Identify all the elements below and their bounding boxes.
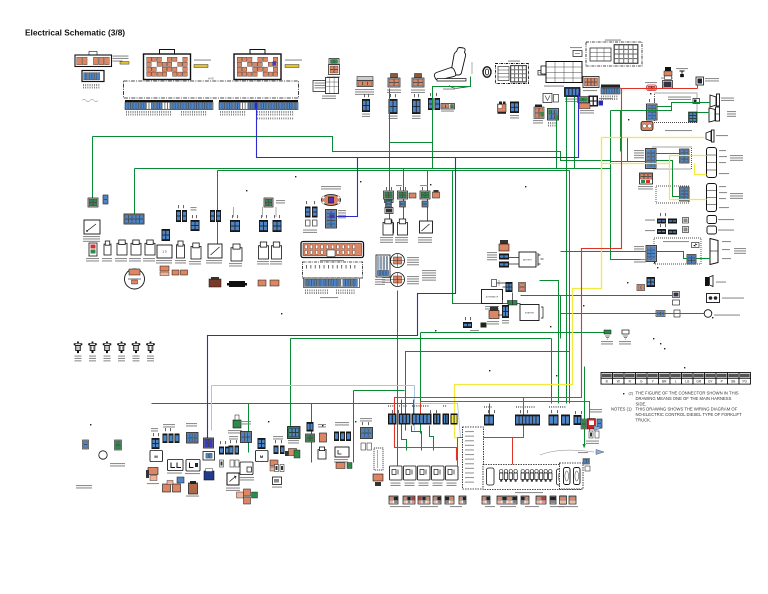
label F5 (133, 356, 140, 362)
label oil pressure (714, 315, 740, 316)
alternator small parts (492, 280, 500, 287)
svg-text:(2): (2) (629, 391, 634, 395)
lamp cluster box (483, 465, 582, 490)
connector CN30 (salmon) (583, 77, 599, 88)
wire green seat drop (433, 77, 471, 169)
body earth white (622, 330, 629, 339)
salmon bits row1 (160, 266, 169, 276)
instrument box dashed (463, 427, 484, 489)
label RL5 (447, 483, 457, 487)
wire green Vb2 (569, 352, 571, 404)
pin strip B labels (220, 111, 245, 116)
wire green rework inner2 (697, 258, 711, 260)
wire green Vc (574, 97, 576, 169)
harness box (WIRE) (124, 78, 299, 99)
label combo (322, 96, 336, 100)
wire green Ve (551, 339, 553, 404)
salmon c19 (336, 463, 352, 469)
label horn (716, 282, 726, 283)
connector E2 (ECU, salmon grid) (234, 50, 281, 80)
wire green Va (566, 97, 568, 404)
connector CN24 pair (428, 98, 434, 110)
wire red top bus (621, 88, 698, 90)
conn d6 (515, 415, 540, 426)
conn d2b (433, 414, 441, 425)
label rear working lamp (663, 241, 689, 242)
conn CN71 (499, 262, 509, 268)
fuse F5 (132, 342, 141, 354)
wire green jog j2 (430, 426, 434, 451)
fr turn relay (693, 99, 700, 104)
salmon cl1 (146, 468, 158, 481)
label CN30 (583, 90, 597, 91)
svg-text:THIS DRAWING SHOWS THE WIRING: THIS DRAWING SHOWS THE WIRING DIAGRAM OF (636, 406, 738, 411)
caps c21 (361, 443, 372, 450)
wire green rr riser (627, 138, 629, 162)
salmon c15 (320, 433, 327, 442)
conn CN44 labels (634, 246, 644, 252)
conn CN55 (230, 220, 240, 232)
conn c13 (307, 422, 314, 432)
head lamp RH box (696, 77, 704, 85)
salmon c12 (285, 449, 300, 459)
relay RL5 (446, 466, 459, 480)
label glow relay (645, 82, 657, 83)
conn CN54 (210, 210, 215, 222)
horn glyph (706, 276, 714, 287)
wire lightblue spur (415, 404, 463, 438)
conn c6 pair (229, 446, 234, 455)
flasher block (663, 81, 673, 89)
salmon c9 (270, 460, 278, 471)
fuse box dashed frame (586, 42, 642, 66)
label lpg battery (83, 236, 100, 242)
blue strip CN50 (124, 214, 144, 224)
wire green rrcombi feed (611, 161, 647, 163)
conn CN72 (506, 282, 513, 292)
battery disconnect sw box (157, 245, 172, 258)
battery stand labels (305, 290, 328, 295)
relay opt box (240, 462, 253, 475)
notes text (611, 390, 742, 422)
connector E1 (ECU, salmon grid) (144, 50, 191, 80)
labels col1 (156, 260, 172, 264)
starter salmon cyl (489, 307, 499, 319)
conn d0 (388, 414, 397, 425)
conn CN46 (647, 277, 656, 287)
wire green rework bus (561, 251, 647, 253)
lpg battery box (84, 220, 100, 234)
wire green G6 mid (354, 390, 405, 392)
conn d2 (412, 414, 432, 425)
dashed tall c22 (374, 448, 383, 470)
wire green drop b4 (397, 291, 399, 466)
wire green head lamp feed (621, 111, 658, 152)
connector CN22 (389, 99, 398, 114)
label power socket (355, 89, 374, 95)
caps pair c10 (275, 465, 285, 472)
wire lightblue loop (212, 386, 415, 431)
conn CN42 (680, 187, 690, 201)
battery gauge (89, 243, 97, 256)
label F4 (118, 356, 125, 362)
label sw box (226, 488, 240, 492)
CN26 label (533, 120, 543, 124)
fuse strip J (536, 496, 546, 504)
conn c20 quad (361, 428, 373, 439)
body earth conn (115, 440, 122, 450)
CN31 pin labels (582, 98, 596, 102)
wire label E2 (285, 60, 302, 61)
wire green sensor link (390, 142, 433, 144)
wire green H1 jog (557, 152, 611, 161)
cyl c16 (318, 447, 326, 459)
rear combi lamp glyph (710, 239, 718, 265)
conn CN75 (463, 322, 472, 328)
fuse box grid 1 (590, 48, 611, 61)
salmon pair b (258, 280, 279, 286)
pin strip C labels (601, 96, 617, 101)
horn2 (131, 240, 141, 255)
caps d13 (589, 431, 599, 438)
svg-text:DRAWING MEANS ONE OF THE MAIN: DRAWING MEANS ONE OF THE MAIN HARNESS (636, 396, 732, 401)
label battery gauge (86, 258, 99, 262)
red cell d11 (588, 419, 596, 430)
label F6 (147, 356, 154, 362)
body earth green (604, 330, 611, 339)
labels rear combi (722, 241, 731, 242)
fuse strip D (433, 496, 441, 504)
sensor S3 (420, 191, 430, 207)
conn c2 pair (163, 434, 168, 444)
bowtie black (227, 281, 247, 287)
wire green hl link (658, 103, 672, 111)
label fuel cap (76, 485, 92, 489)
wire green V610 (611, 111, 641, 260)
conn c7 (on green) (241, 432, 252, 443)
label starter cyl (487, 321, 499, 325)
blue conn CN33 (548, 109, 559, 121)
wire labels CN1 (113, 56, 129, 60)
wire green sensor drop1 (389, 89, 391, 226)
glow plug glyph (680, 71, 685, 77)
fuse F6 (146, 342, 155, 354)
wire green drop b3 (353, 391, 355, 463)
conn black col (385, 208, 393, 214)
salmon tag s1 (409, 193, 416, 198)
dotted box head lamp group (655, 93, 698, 123)
conn CN74 (502, 305, 509, 318)
conn CN57 (273, 220, 282, 232)
alternator box (482, 290, 503, 304)
label seat sw (443, 89, 455, 90)
wire red drop c2 (458, 437, 513, 439)
motor M2 (256, 451, 269, 462)
salmon tag s3 (433, 190, 440, 198)
fuel cap conn (83, 440, 89, 449)
green cell d10 (581, 419, 587, 429)
striped connector (376, 255, 390, 277)
sensor labels (396, 185, 402, 186)
sensor cyl3 (cold start) (420, 221, 433, 233)
conn col CN44 (646, 246, 657, 262)
buzzer alarm box (707, 294, 720, 303)
wire red stub 420 (420, 402, 422, 415)
relay RL4 (432, 466, 445, 480)
connector CN1 (instrument, salmon) (75, 52, 112, 67)
label cab connector (321, 186, 341, 190)
fuse spare1 (191, 243, 201, 259)
power socket (357, 77, 373, 87)
license conn row (657, 219, 666, 224)
cab connector round (322, 195, 341, 206)
fuse strip K (550, 496, 556, 504)
connector pin ticks (153, 93, 666, 444)
br fuse labels (558, 506, 578, 507)
wire green loop drop (290, 339, 292, 428)
svg-text:1 3: 1 3 (162, 250, 167, 254)
bell circle (125, 269, 145, 289)
relay RL3 (418, 466, 431, 480)
connector2 stack (388, 74, 400, 88)
ignition strip (441, 104, 455, 110)
label head lamp group (668, 97, 691, 101)
conn pair CN52 (176, 210, 181, 222)
fuse F4 (117, 342, 126, 354)
wire yellow top (602, 137, 705, 139)
labels fuses r (257, 261, 269, 265)
box c18 (335, 447, 349, 457)
label RL4 (433, 483, 443, 487)
conn c3 pair (175, 434, 180, 444)
fuse labels row (390, 506, 410, 507)
wire green sensor drop3 (427, 171, 429, 229)
connector CN26 (salmon) (534, 105, 544, 119)
label relay opt (239, 477, 254, 481)
small part CN48 (674, 310, 680, 317)
conn d1 (399, 414, 411, 425)
sub box label (508, 61, 520, 62)
fr combi lamp glyph (709, 107, 720, 122)
wire yellow combi drop (670, 164, 707, 200)
sensor S2 (398, 191, 408, 207)
label c18 (334, 459, 348, 463)
br fuse2 (569, 496, 576, 504)
big round connector (salmon) (641, 122, 653, 131)
label cb1 (167, 473, 182, 474)
part right of W (554, 95, 559, 103)
fuse strip C (418, 496, 430, 504)
salmon cross (237, 489, 258, 504)
connector4 stack (412, 74, 424, 88)
svg-text:GR: GR (696, 380, 701, 384)
svg-text:PU: PU (743, 380, 748, 384)
label flasher unit (638, 186, 653, 190)
back buzzer speaker (706, 130, 714, 142)
label glow plug (676, 68, 688, 69)
wire green oil bus (561, 313, 705, 315)
yellow tag E1 (194, 65, 208, 68)
black link battery (509, 258, 544, 265)
towing motor (541, 62, 582, 83)
wire yellow main (455, 138, 602, 453)
license lamp glyphs (707, 216, 717, 235)
label F1 (75, 356, 82, 362)
svg-text:LG: LG (685, 380, 690, 384)
dark part1 (209, 277, 221, 287)
spare fuse3 (259, 242, 269, 259)
fusible labels (487, 252, 497, 260)
seat switch lever (449, 86, 470, 89)
wire green G3 (218, 170, 570, 172)
connector CN20 (green/salmon) (329, 59, 340, 75)
label fr combi (727, 111, 736, 117)
50w connector B (391, 273, 405, 287)
dotted box rr combi RH (656, 186, 689, 203)
wire red drop c1 (513, 398, 524, 466)
fuse F3 (103, 342, 112, 354)
fuel gauge cyl (104, 241, 111, 255)
conn CN53 (191, 220, 200, 231)
sensor S1 (384, 191, 394, 207)
wire green G5 (453, 171, 521, 304)
pin strip C (601, 85, 620, 95)
label ign (441, 111, 454, 112)
wire green loop low (291, 338, 552, 340)
br dashed box (560, 463, 584, 489)
flasher unit block (640, 173, 653, 184)
wire green rework inner (657, 252, 688, 259)
wire green drop b1 (248, 404, 250, 453)
relay cluster CN32 (578, 96, 604, 109)
50w labels (407, 257, 419, 265)
pin numbers CN2 (83, 84, 99, 89)
relay R10 (498, 102, 507, 114)
wire red lower bus (421, 402, 590, 431)
blue conn CN31 (navy strip) (565, 88, 581, 97)
label body earth2 (619, 341, 631, 345)
svg-text:SB: SB (731, 380, 735, 384)
arrow marker 1 (594, 426, 602, 431)
cb box 2 (186, 460, 200, 472)
connector CN2 (blue cells) (82, 71, 104, 82)
horn W box (543, 94, 552, 103)
pin strip A labels (126, 111, 171, 116)
label RL2 (405, 483, 415, 487)
salmon c23 (373, 474, 383, 486)
motor M1 (150, 451, 163, 462)
green earth arrow (583, 444, 586, 449)
fuse strip F (459, 496, 466, 504)
conn CN58 (on green G4) (264, 198, 273, 207)
label dark brown (186, 496, 199, 497)
relay RL1 (390, 466, 403, 480)
spare fuse2 (231, 244, 242, 261)
wire blue main (257, 94, 579, 158)
wire green bottom main (152, 403, 414, 405)
svg-text:NO-ELECTRIC CONTROL DIESEL TYP: NO-ELECTRIC CONTROL DIESEL TYPE OF FORKL… (636, 412, 743, 417)
connector CN23 (412, 99, 421, 114)
black link starter (498, 293, 513, 316)
conn pair CN60 (305, 207, 311, 218)
wire green drop b9 (584, 367, 586, 445)
black link alternator (497, 283, 506, 287)
blue conn on blue wire (204, 438, 214, 448)
wire green hl inner (658, 103, 711, 107)
wire green jog j1 (412, 426, 422, 451)
label fuse holder (382, 277, 395, 283)
label connector2 (387, 90, 401, 94)
label power supply (586, 441, 599, 445)
conn c5 pair (219, 447, 224, 455)
label cb2 (185, 473, 200, 474)
label ctr (470, 330, 479, 331)
wire green drop b8 (489, 404, 491, 417)
relay RL2 (404, 466, 417, 480)
wire green drop b6 (413, 400, 415, 426)
wire green G2 (135, 168, 611, 170)
battery stand pin strip (304, 278, 360, 288)
wire red hl spur (697, 86, 699, 89)
rr combi lamp LH glyph (707, 148, 717, 178)
pin strip extra labels (257, 118, 293, 120)
svg-text:ALTERNATOR: ALTERNATOR (486, 296, 499, 299)
yellow tag E2 (285, 65, 299, 68)
svg-text:W: W (617, 380, 620, 384)
label CN58 (276, 200, 285, 204)
label RL3 (419, 483, 429, 487)
fuse strip G (482, 496, 490, 504)
fuse strip B (403, 496, 415, 504)
label body earth b (110, 463, 125, 467)
fuse strip H (497, 496, 517, 504)
pin strip A (125, 100, 213, 110)
starter box (520, 305, 543, 321)
wire green stbus (521, 295, 673, 297)
svg-text:P: P (721, 380, 723, 384)
wire blue loop low (208, 158, 456, 439)
br fuse1 (560, 496, 567, 504)
conn CN41 (680, 149, 690, 163)
oil pressure connector (656, 311, 665, 317)
label F3 (104, 356, 111, 362)
conn d3 (443, 414, 450, 425)
battery stand lower box (303, 262, 363, 278)
connector CN25 (510, 102, 519, 114)
spare fuse4 (272, 242, 282, 259)
wire red drop c3 (457, 438, 459, 466)
label K11 (570, 47, 582, 48)
battery stand connector (301, 242, 364, 258)
coolant bottle (664, 67, 672, 80)
dotted box rear working lamp (654, 238, 701, 264)
fuse holder col (385, 220, 394, 233)
label back buzzer assy (665, 130, 692, 131)
relay K11 (573, 51, 582, 57)
label cab tilt (206, 260, 222, 264)
cab grid conn (326, 210, 337, 229)
fuse F1 (74, 342, 83, 354)
conn green col (385, 193, 394, 203)
dotted box rr combi LH (653, 147, 692, 169)
horn3 (145, 240, 155, 255)
wire green drop x420 (420, 333, 422, 434)
caps c5 (220, 460, 224, 467)
conn c1 (152, 438, 160, 449)
label alternator (485, 306, 499, 310)
wire green Vb (406, 171, 570, 431)
conn d12 (597, 419, 602, 428)
